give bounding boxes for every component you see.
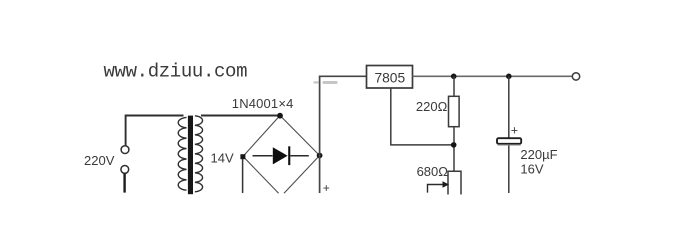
wire (C1 bottom down, cut off) (508, 145, 510, 193)
wire (rail down to C1) (508, 76, 510, 138)
wire (secondary top to bridge top vertex) (201, 115, 280, 117)
svg-text:+: + (323, 181, 330, 195)
wiper arrow of R2 (428, 181, 450, 192)
wire (primary lower stub, cut off at image bottom) (123, 174, 125, 193)
faint watermark remnant (314, 81, 338, 84)
wire (regulator output rail to terminal) (413, 75, 573, 77)
svg-text:14V: 14V (211, 151, 234, 166)
svg-text:16V: 16V (520, 162, 543, 177)
svg-text:+: + (511, 124, 518, 138)
wire (bridge + up to regulator input, and down, cut off) (320, 76, 367, 193)
wire (AC return from bridge left vertex, cut off) (242, 159, 244, 193)
svg-text:www.dziuu.com: www.dziuu.com (104, 61, 248, 83)
node (bridge left vertex, AC input) (240, 154, 245, 159)
wire (R1 bottom to R2 top) (453, 127, 455, 172)
wire (regulator ground pin down and right) (391, 88, 454, 145)
transformer core (188, 116, 193, 195)
svg-text:1N4001×4: 1N4001×4 (232, 96, 293, 111)
svg-text:220Ω: 220Ω (416, 99, 448, 114)
transformer secondary winding (195, 116, 203, 192)
wire (rail down to R1) (453, 76, 455, 96)
wire (primary top: from upper terminal up and right to transformer) (126, 116, 184, 146)
terminal (220V lower) (121, 166, 129, 174)
junction (bridge right vertex, + output) (317, 153, 323, 159)
terminal (220V upper) (121, 146, 129, 154)
svg-text:220µF: 220µF (520, 147, 557, 162)
bridge rectifier diamond edges (243, 116, 320, 194)
svg-text:7805: 7805 (374, 71, 405, 86)
junction (R1 / R2 / regulator ground) (451, 142, 457, 148)
junction (rail / R1 top) (451, 74, 457, 80)
junction (rail / C1 top) (506, 74, 512, 80)
transformer T primary winding (178, 117, 186, 190)
svg-text:220V: 220V (84, 153, 115, 168)
output terminal (open circle) (572, 73, 579, 80)
capacitor C1 body (electrolytic) (497, 138, 521, 146)
resistor R1 220 ohm (449, 96, 460, 126)
junction (bridge top vertex) (277, 113, 283, 119)
diode D inside bridge (253, 146, 309, 165)
resistor R2 680 ohm (adjustable, cut off at image bottom) (448, 171, 461, 194)
voltage regulator U1 box (367, 66, 413, 89)
svg-text:680Ω: 680Ω (417, 164, 449, 179)
